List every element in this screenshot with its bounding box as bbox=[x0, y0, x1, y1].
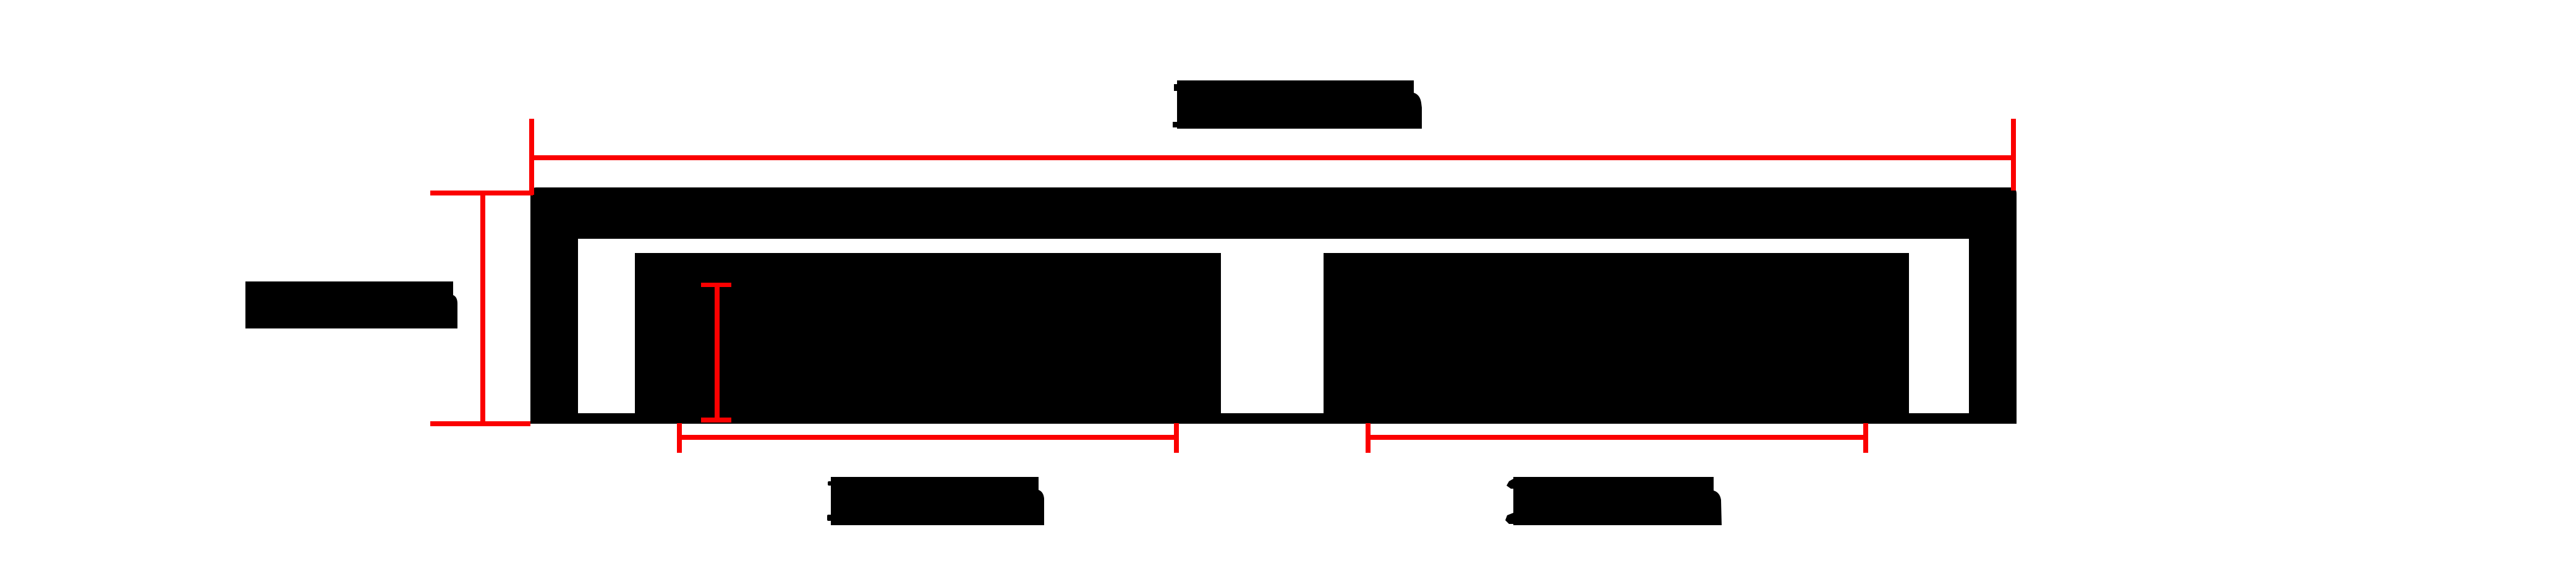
inner block height dimension vertical line bbox=[715, 285, 720, 420]
bottom left dimension left tick bbox=[677, 423, 682, 453]
top width dimension line bbox=[529, 155, 2016, 160]
bottom left dimension right tick bbox=[1174, 423, 1179, 453]
inner cavity (white) bbox=[578, 239, 1969, 413]
left inner block bbox=[635, 253, 1221, 424]
inner block height dimension top tick bbox=[701, 283, 731, 287]
inner block height dimension bottom tick bbox=[701, 418, 731, 422]
profile outer body (top flange + side walls + bottom skin) bbox=[530, 187, 2017, 424]
left height dimension bottom tick bbox=[430, 421, 530, 426]
bottom right dimension left tick bbox=[1366, 423, 1371, 453]
bottom right dimension right tick bbox=[1863, 423, 1868, 453]
left height dimension vertical line bbox=[480, 193, 485, 424]
left height dimension top tick bbox=[430, 191, 533, 195]
right inner block bbox=[1324, 253, 1909, 424]
bottom left label (redacted text blob) bbox=[831, 477, 1044, 525]
top dimension right tick bbox=[2011, 119, 2016, 191]
left height label (redacted text blob) bbox=[245, 281, 457, 328]
bottom right label (redacted text blob) bbox=[1513, 477, 1722, 525]
top width label (redacted text blob) bbox=[1177, 80, 1422, 129]
bottom right dimension line bbox=[1368, 435, 1866, 440]
bottom left dimension line bbox=[679, 435, 1176, 440]
top dimension left tick bbox=[529, 119, 534, 195]
